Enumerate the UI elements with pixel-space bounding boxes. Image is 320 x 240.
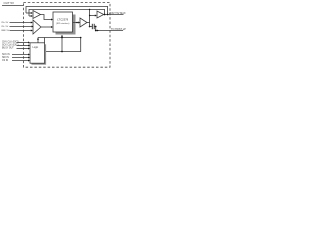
svg-text:VOUT 5V MAX: VOUT 5V MAX [109,12,126,15]
svg-text:CNV CLK (EXT): CNV CLK (EXT) [2,42,19,44]
svg-text:SCK CLK (EXT): SCK CLK (EXT) [2,45,19,47]
svg-text:TO HOST µP: TO HOST µP [111,28,126,31]
svg-text:SCK IN: SCK IN [2,54,10,56]
svg-text:IN+ 5V: IN+ 5V [2,22,9,24]
svg-text:REF 5V: REF 5V [2,30,10,32]
svg-text:(SPI interface): (SPI interface) [56,22,70,25]
svg-text:LTC2378: LTC2378 [57,18,68,22]
svg-text:OUT 5V: OUT 5V [4,1,14,5]
svg-text:CS IN: CS IN [2,60,8,62]
svg-text:BUSY OUT: BUSY OUT [2,48,14,50]
svg-text:Logic: Logic [33,46,40,49]
svg-text:SDI IN: SDI IN [2,57,9,59]
svg-text:IN– 5V: IN– 5V [2,26,9,28]
